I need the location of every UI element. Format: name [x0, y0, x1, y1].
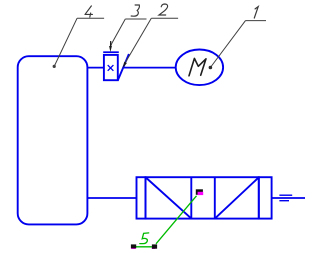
- grip black left: [131, 244, 136, 248]
- label 4 digit (stroke glyph): [85, 6, 93, 17]
- grip magenta under left grip: [131, 246, 136, 249]
- label 3 leader: [111, 19, 126, 47]
- label 5 digit (green stroke glyph, selected): [140, 233, 149, 244]
- wire tank to pump box: [87, 67, 104, 69]
- grip black right: [152, 244, 157, 248]
- wire filter outlet: [272, 197, 305, 199]
- grip magenta under right grip: [152, 246, 155, 249]
- divider 2: [214, 177, 216, 218]
- tick line above pump box: [103, 51, 119, 53]
- dash below outlet: [279, 200, 289, 202]
- label 1 shelf: [246, 20, 267, 22]
- label 5 shelf (green): [134, 246, 155, 248]
- motor 1 (ellipse): [176, 50, 223, 86]
- label 1 leader dot: [209, 66, 213, 70]
- label 5 leader (green diagonal): [156, 196, 197, 244]
- grip black at filter end: [196, 189, 203, 195]
- label 4 leader dot: [53, 65, 56, 68]
- pump box (element 3, rectangle with x): [104, 55, 118, 80]
- divider 1: [190, 177, 192, 218]
- filter right cap: [259, 177, 272, 218]
- x mark inside pump box: [108, 65, 114, 71]
- label 3 shelf: [125, 18, 146, 20]
- filter body: [146, 177, 259, 218]
- wire slash to motor: [123, 67, 176, 69]
- label 1 digit (stroke glyph): [254, 7, 258, 18]
- dash above outlet: [279, 194, 292, 196]
- diagonal in right section: [215, 178, 259, 219]
- filter left cap: [137, 177, 146, 218]
- slash (element 2, lever symbol): [118, 54, 129, 80]
- diagonal in left section: [146, 178, 191, 219]
- label 3 arrow: [109, 46, 112, 52]
- label 2 arrowhead: [123, 62, 127, 68]
- label 1 leader: [210, 21, 245, 68]
- label 4 leader: [54, 18, 77, 66]
- label M (stroke glyph): [189, 58, 206, 75]
- label 2 leader: [124, 18, 151, 64]
- grip magenta at filter end: [198, 192, 204, 195]
- label 3 digit (stroke glyph): [131, 5, 139, 16]
- label 2 digit (stroke glyph): [159, 4, 168, 15]
- tank 4 (reservoir, rounded rectangle): [18, 56, 88, 224]
- label 2 shelf: [151, 17, 178, 19]
- label 4 shelf: [77, 17, 104, 19]
- wire tank to filter: [87, 197, 136, 199]
